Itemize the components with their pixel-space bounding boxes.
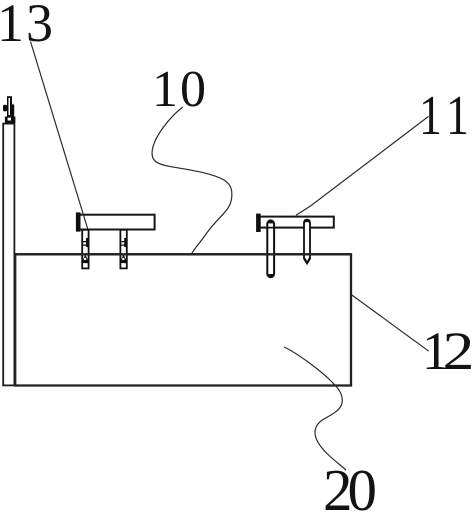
screw head right bar: [12, 104, 14, 117]
screw head left lug: [3, 105, 7, 112]
leader line 11: [296, 116, 429, 215]
left clamp screw A tip mark: [83, 256, 88, 262]
right clamp end plate: [256, 214, 261, 232]
left clamp screw B tip mark: [121, 256, 126, 262]
label 12: [422, 321, 474, 381]
left clamp screw A ticks: [82, 241, 88, 243]
svg-text:13: 13: [0, 0, 55, 53]
support post (left vertical member): [3, 124, 14, 386]
base box (body 12 / 20): [15, 254, 351, 385]
left clamp end plate: [76, 212, 81, 231]
screw head pin on post top: [7, 96, 12, 117]
leader line 13: [31, 42, 88, 229]
leader line 20 (S-curve): [284, 347, 346, 470]
right clamp pin B (round top, pointed bottom): [303, 219, 311, 266]
label 11: [419, 85, 469, 147]
right clamp bar bottom edge overline: [260, 227, 303, 229]
left clamp screw B body: [120, 230, 126, 269]
svg-text:1: 1: [419, 85, 442, 147]
left clamp screw B ticks: [120, 241, 126, 243]
left clamp bar 13: [78, 215, 155, 230]
left clamp screw A body: [82, 230, 88, 269]
right clamp pin A (long, round ends, black caps): [266, 219, 275, 278]
screw head base band: [5, 117, 16, 124]
svg-text:10: 10: [152, 61, 208, 118]
svg-text:1: 1: [446, 85, 469, 147]
left clamp screw B nut blob: [124, 238, 127, 247]
box top edge overline: [15, 253, 351, 255]
leader line 12: [352, 295, 429, 351]
svg-text:20: 20: [323, 457, 376, 512]
svg-text:2: 2: [443, 321, 474, 381]
left clamp screw A nut blob: [86, 238, 89, 247]
right clamp bar 11: [258, 217, 334, 228]
leader line 10 (S-curve): [152, 107, 232, 254]
